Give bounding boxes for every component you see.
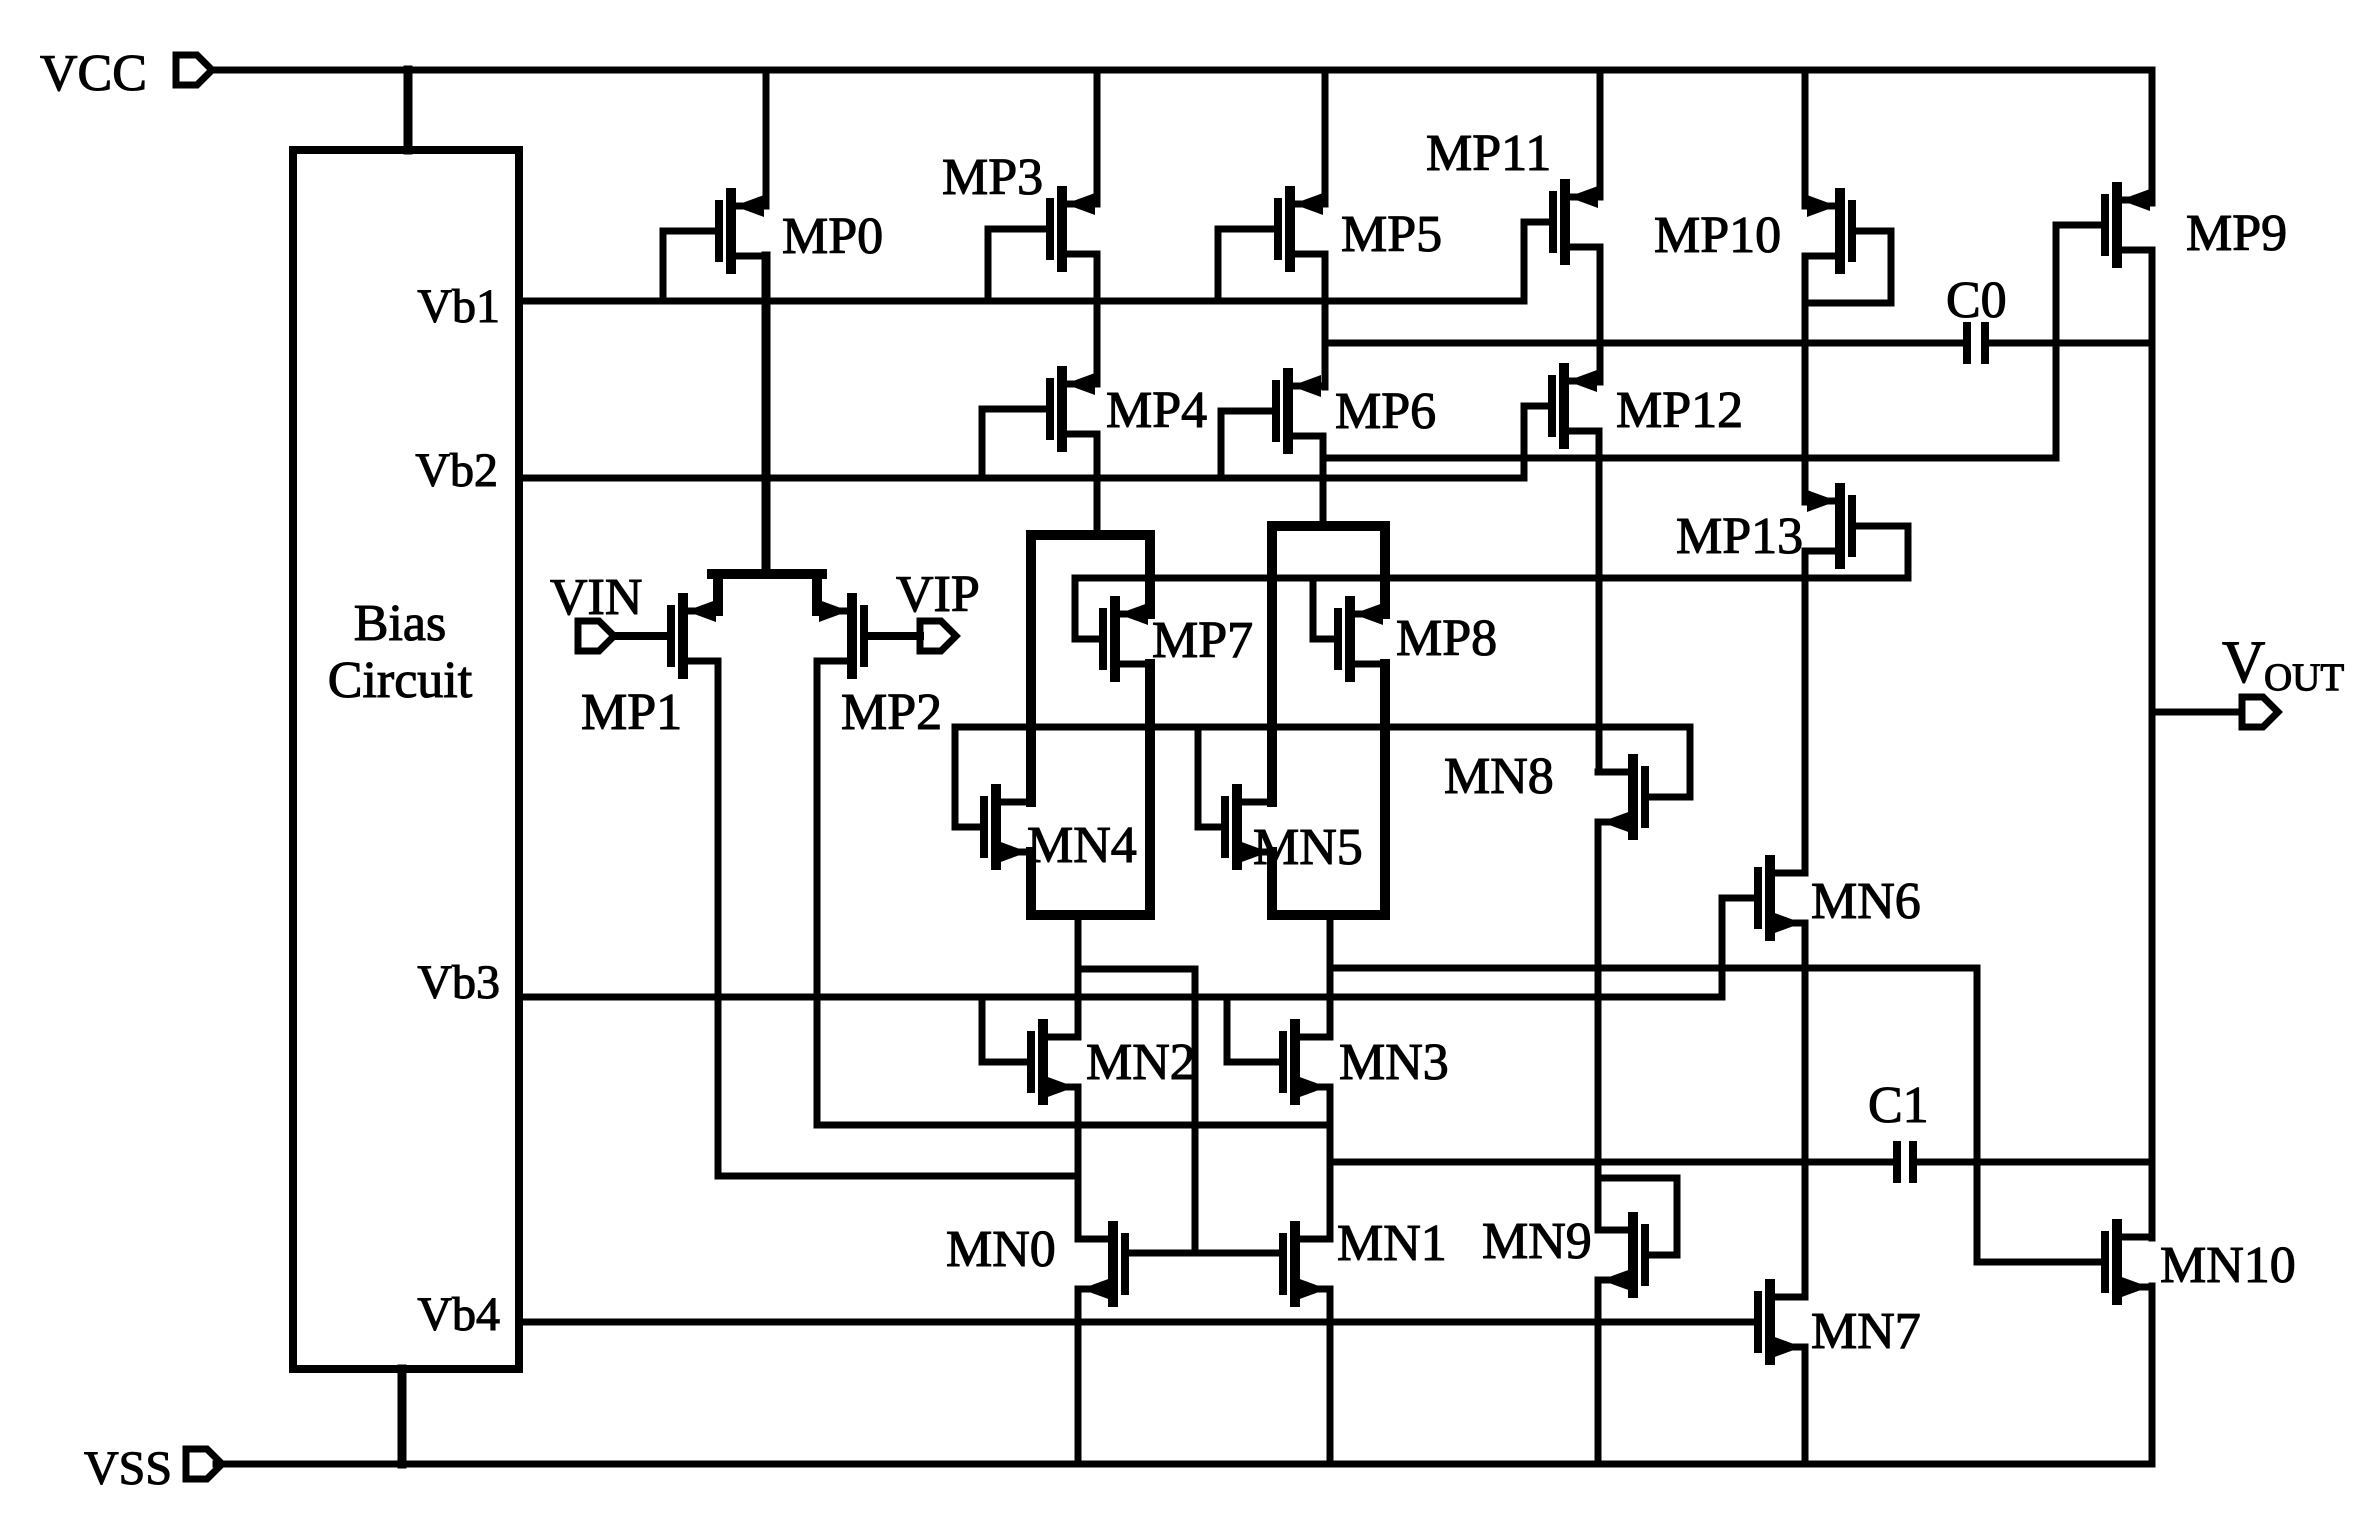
transistor MN6 — [1758, 860, 1805, 936]
wire MP11 source — [1597, 70, 1604, 197]
wire VSS rail — [216, 1286, 2152, 1464]
wire MN9 source — [1595, 1280, 1602, 1464]
wire MN3 gate to Vb3 — [1227, 997, 1283, 1062]
svg-text:MN2: MN2 — [1086, 1034, 1196, 1091]
svg-text:MP5: MP5 — [1341, 206, 1442, 263]
wire MN8 gate hook — [1645, 727, 1690, 797]
svg-text:VSS: VSS — [84, 1442, 172, 1495]
label MN5 — [1253, 819, 1363, 876]
svg-text:MN5: MN5 — [1253, 819, 1363, 876]
label MN0 — [946, 1221, 1056, 1278]
VOUT port — [2242, 697, 2278, 727]
wire rect2 bottom stub — [1327, 915, 1334, 1037]
VIN port — [578, 621, 614, 651]
label MP0 — [782, 208, 883, 265]
label MP13 — [1676, 508, 1803, 565]
svg-text:Vb4: Vb4 — [417, 1288, 500, 1341]
wire MP9 gate lead — [2056, 225, 2105, 458]
wire bias-box VSS stub — [398, 1369, 407, 1464]
wire MP2 source — [812, 574, 822, 611]
transistor MP10 — [1805, 193, 1852, 269]
wire C0 left net — [1325, 340, 1962, 347]
wire MP5 gate to Vb1 — [1218, 229, 1278, 301]
label MP11 — [1426, 125, 1551, 182]
wire MN10 source — [2149, 1287, 2156, 1464]
capacitor C0 — [1967, 326, 1985, 360]
wire VIN to MP1 gate — [614, 632, 671, 640]
transistor MN0 — [1078, 1226, 1125, 1302]
svg-text:Circuit: Circuit — [328, 652, 473, 709]
transistor MP11 — [1553, 184, 1600, 260]
wire MN7 source — [1802, 1347, 1809, 1464]
label MN9 — [1482, 1213, 1592, 1270]
label MN6 — [1811, 873, 1921, 930]
wire MP13 gate hook — [1852, 526, 1908, 578]
transistor MP9 — [2105, 187, 2152, 263]
svg-text:C1: C1 — [1868, 1077, 1929, 1134]
transistor MN8 — [1598, 759, 1645, 835]
wire rect1 bottom stub — [1075, 915, 1082, 1037]
label MN4 — [1027, 817, 1137, 874]
wire MN10 gate lead — [1977, 968, 2105, 1262]
wire Vb4 net — [519, 1319, 1755, 1326]
transistor MN9 — [1598, 1217, 1645, 1293]
wire MP5 source — [1322, 70, 1329, 204]
transistor MN1 — [1283, 1226, 1330, 1302]
svg-text:MP10: MP10 — [1654, 207, 1781, 264]
wire MP12 gate to Vb2 — [1524, 406, 1552, 478]
svg-text:C0: C0 — [1946, 272, 2007, 329]
wire NMOS cascode gate line — [955, 724, 1690, 731]
wire MP4 gate to Vb2 — [982, 409, 1050, 478]
wire MP0 source — [763, 70, 770, 206]
transistor MP7 — [1103, 601, 1150, 677]
VIP port — [920, 621, 956, 651]
bias circuit block — [293, 150, 519, 1369]
wire MP2 drain to MN3 node — [817, 661, 1330, 1125]
wire MP8 gate hook — [1313, 578, 1338, 639]
label MN1 — [1337, 1215, 1447, 1272]
wire MP1 source — [713, 574, 723, 611]
svg-text:MP8: MP8 — [1396, 610, 1497, 667]
wire MN1 source — [1327, 1289, 1334, 1464]
svg-text:MN4: MN4 — [1027, 817, 1137, 874]
label MP7 — [1152, 612, 1253, 669]
svg-text:MN10: MN10 — [2160, 1237, 2296, 1294]
label MN2 — [1086, 1034, 1196, 1091]
wire MP7 gate hook — [1075, 578, 1103, 639]
wire MN2 source column — [1075, 1087, 1082, 1239]
svg-text:Vb1: Vb1 — [417, 280, 500, 333]
wire C1 right net — [1917, 1159, 2152, 1166]
wire MP3 source — [1094, 70, 1101, 204]
wire MP10 gate diode hook — [1805, 231, 1891, 303]
wire MP2 gate to VIP — [864, 632, 920, 640]
svg-text:VIP: VIP — [896, 566, 980, 623]
svg-text:MN1: MN1 — [1337, 1215, 1447, 1272]
wire MP0 gate to Vb1 — [663, 231, 719, 301]
wire MP10 source — [1802, 70, 1809, 206]
label MP1 — [581, 684, 682, 741]
svg-text:MP12: MP12 — [1616, 382, 1743, 439]
transistor MP5 — [1278, 191, 1325, 267]
svg-text:MP9: MP9 — [2186, 205, 2287, 262]
wire MP9 drain column — [2149, 250, 2156, 1238]
transistor MN3 — [1283, 1024, 1330, 1100]
wire bias-box VCC stub — [404, 70, 413, 150]
wire cascode loop MP7/MN4 — [1031, 535, 1150, 915]
wire PMOS cascode gate line — [1075, 575, 1908, 582]
wire MP11 gate to Vb1 — [1524, 222, 1553, 301]
capacitor C1 — [1897, 1145, 1913, 1179]
wire Vb3 net — [519, 994, 1722, 1001]
pin label Vb1 — [417, 280, 500, 333]
svg-text:VIN: VIN — [550, 569, 642, 626]
VSS port — [186, 1449, 222, 1479]
wire C1 left net — [1330, 1159, 1893, 1166]
label MP9 — [2186, 205, 2287, 262]
wire Vb1 net — [519, 298, 1524, 305]
wire node A jog — [1078, 969, 1195, 1253]
svg-text:MP13: MP13 — [1676, 508, 1803, 565]
wire MP3 drain to MP4 — [1094, 254, 1101, 384]
svg-text:MP3: MP3 — [942, 149, 1043, 206]
transistor MP8 — [1338, 601, 1385, 677]
wire MP11 drain to MP12 — [1597, 247, 1604, 382]
transistor MP0 — [719, 193, 766, 269]
pin label Vb2 — [415, 444, 498, 497]
label C1 — [1868, 1077, 1929, 1134]
svg-text:MP4: MP4 — [1106, 382, 1207, 439]
wire MP3 gate to Vb1 — [988, 229, 1050, 301]
svg-text:MP6: MP6 — [1335, 383, 1436, 440]
pin label Vb4 — [417, 1288, 500, 1341]
wire MN8 source column — [1595, 822, 1602, 1230]
label MN10 — [2160, 1237, 2296, 1294]
svg-text:Vb2: Vb2 — [415, 444, 498, 497]
wire MP13 drain to MN6 — [1802, 551, 1809, 873]
svg-text:Vb3: Vb3 — [417, 956, 500, 1009]
net label VOUT — [2222, 629, 2344, 699]
wire MN3 source column — [1327, 1087, 1334, 1239]
label MP4 — [1106, 382, 1207, 439]
wire MP4 drain to rect — [1094, 434, 1101, 535]
label MN8 — [1444, 748, 1554, 805]
wire MN5 source to MN10 gate — [1330, 965, 1977, 972]
wire MN4 gate hook — [955, 727, 984, 827]
label MP5 — [1341, 206, 1442, 263]
svg-text:MP11: MP11 — [1426, 125, 1551, 182]
wire MP1 drain to MN2 node — [718, 661, 1078, 1176]
wire Vb2 net — [519, 475, 1524, 482]
transistor MN10 — [2105, 1224, 2152, 1300]
VCC port — [176, 55, 212, 85]
wire MN9 gate diode hook — [1598, 1178, 1677, 1255]
transistor MP4 — [1050, 371, 1097, 447]
label MP10 — [1654, 207, 1781, 264]
label MP12 — [1616, 382, 1743, 439]
svg-text:MN8: MN8 — [1444, 748, 1554, 805]
wire MN6 source to MN7 — [1802, 923, 1809, 1297]
svg-text:MP2: MP2 — [841, 684, 942, 741]
wire MN6 gate to Vb3 — [1722, 898, 1758, 997]
transistor MN2 — [1031, 1024, 1078, 1100]
transistor MP13 — [1805, 488, 1852, 564]
wire MN0 MN1 gate line — [1125, 1250, 1283, 1257]
svg-text:MN0: MN0 — [946, 1221, 1056, 1278]
label MN3 — [1339, 1034, 1449, 1091]
label MP8 — [1396, 610, 1497, 667]
svg-text:OUT: OUT — [2264, 656, 2344, 699]
wire MP6 drain to rect — [1320, 436, 1327, 526]
net label VIP — [896, 566, 980, 623]
svg-text:MN9: MN9 — [1482, 1213, 1592, 1270]
wire MN2 gate to Vb3 — [982, 997, 1031, 1062]
label Bias Circuit — [328, 595, 473, 709]
transistor MP6 — [1276, 373, 1323, 449]
svg-text:Bias: Bias — [354, 595, 446, 652]
label MP2 — [841, 684, 942, 741]
svg-text:MP0: MP0 — [782, 208, 883, 265]
label MN7 — [1811, 1303, 1921, 1360]
wire diff tail bar — [712, 569, 822, 579]
svg-text:V: V — [2222, 629, 2265, 695]
svg-text:VCC: VCC — [40, 45, 147, 102]
wire Vout — [2152, 709, 2242, 716]
wire MN5 gate hook — [1198, 727, 1225, 827]
transistor MP1 — [671, 598, 718, 674]
svg-text:MP7: MP7 — [1152, 612, 1253, 669]
label C0 — [1946, 272, 2007, 329]
transistor MP12 — [1552, 368, 1599, 444]
wire MP10 drain to MP13 — [1802, 256, 1809, 502]
svg-text:MN7: MN7 — [1811, 1303, 1921, 1360]
wire VCC rail — [212, 70, 2152, 203]
wire MP0 drain to tail — [762, 256, 771, 574]
svg-text:MP1: MP1 — [581, 684, 682, 741]
wire MP5 drain to MP6 — [1322, 254, 1329, 387]
svg-text:MN6: MN6 — [1811, 873, 1921, 930]
transistor MN7 — [1758, 1284, 1805, 1360]
transistor MP3 — [1050, 191, 1097, 267]
wire cascode loop MP8/MN5 — [1272, 526, 1385, 915]
wire MP12 drain column — [1596, 431, 1603, 772]
transistor MN4 — [984, 789, 1031, 865]
transistor MP2 — [817, 598, 864, 674]
wire C0 right net — [1990, 340, 2152, 347]
transistor MN5 — [1225, 789, 1272, 865]
wire MP6 gate to Vb2 — [1221, 411, 1276, 478]
label MP3 — [942, 149, 1043, 206]
svg-text:MN3: MN3 — [1339, 1034, 1449, 1091]
wire MP6 drain to MP9 gate — [1323, 455, 2056, 462]
net label VSS — [84, 1442, 172, 1495]
wire MN0 source — [1075, 1289, 1082, 1464]
net label VIN — [550, 569, 642, 626]
label MP6 — [1335, 383, 1436, 440]
pin label Vb3 — [417, 956, 500, 1009]
net label VCC — [40, 45, 147, 102]
